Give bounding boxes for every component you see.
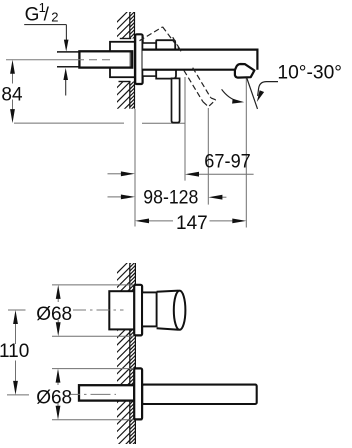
svg-text:Ø68: Ø68	[36, 304, 72, 325]
wall lines bottom view	[130, 263, 136, 444]
svg-text:2: 2	[51, 10, 58, 25]
svg-text:84: 84	[1, 84, 23, 105]
spout escutcheon	[134, 368, 142, 419]
inlet pipe	[57, 52, 85, 67]
handle base	[142, 292, 157, 326]
aerator	[235, 64, 255, 78]
extension line x=185	[184, 77, 186, 181]
down pipe	[172, 78, 180, 122]
extension lines bottom view	[7, 285, 143, 420]
spout union nut bottom	[79, 385, 134, 400]
svg-text:147: 147	[176, 213, 208, 234]
dimension 110	[15, 323, 17, 382]
union nut G1/2	[79, 51, 132, 67]
lower neck step	[143, 70, 157, 76]
dimension 67-97	[108, 173, 254, 175]
svg-text:/: /	[44, 5, 50, 26]
spout tube	[143, 50, 258, 70]
dashed spout down position	[184, 70, 203, 101]
extension line wall x=135	[134, 109, 136, 227]
rough-in body	[110, 42, 135, 77]
svg-text:G: G	[25, 5, 40, 26]
upper neck step	[143, 43, 157, 50]
angle leader from text	[258, 82, 278, 96]
svg-text:110: 110	[0, 341, 29, 362]
concealed mounting box	[109, 291, 135, 329]
handle escutcheon	[134, 285, 142, 336]
handle knob	[157, 291, 179, 292]
spout axis centerline	[71, 393, 116, 395]
pipe centerline	[6, 59, 110, 61]
spout bar	[142, 385, 257, 404]
basin reference line y=123	[14, 122, 185, 124]
dimension 147	[148, 220, 234, 222]
lower housing	[156, 70, 176, 79]
angle arc left	[222, 89, 238, 101]
dimension 84	[12, 72, 14, 110]
dimension 98-128	[108, 196, 227, 198]
extension line / spout axis x=246.3	[245, 78, 247, 228]
dimension Ø68 lower	[57, 382, 59, 407]
escutcheon top view	[135, 34, 142, 84]
body shoulder lines	[120, 38, 131, 40]
svg-text:98-128: 98-128	[143, 187, 198, 208]
wall hatch top view	[110, 0, 140, 131]
extension line x=208.3	[207, 108, 209, 205]
svg-text:Ø68: Ø68	[36, 388, 72, 409]
handle axis centerline	[73, 309, 124, 311]
aerator tilt line	[247, 78, 258, 109]
wall hatch bottom view	[110, 248, 142, 448]
svg-text:67-97: 67-97	[204, 151, 251, 172]
dimension Ø68 upper	[57, 298, 59, 323]
dashed lever up position	[140, 27, 216, 107]
wall lines top view	[130, 12, 135, 109]
lever base	[156, 40, 175, 50]
dimension G 1/2 leader	[24, 25, 66, 96]
svg-text:10°-30°: 10°-30°	[277, 63, 342, 84]
